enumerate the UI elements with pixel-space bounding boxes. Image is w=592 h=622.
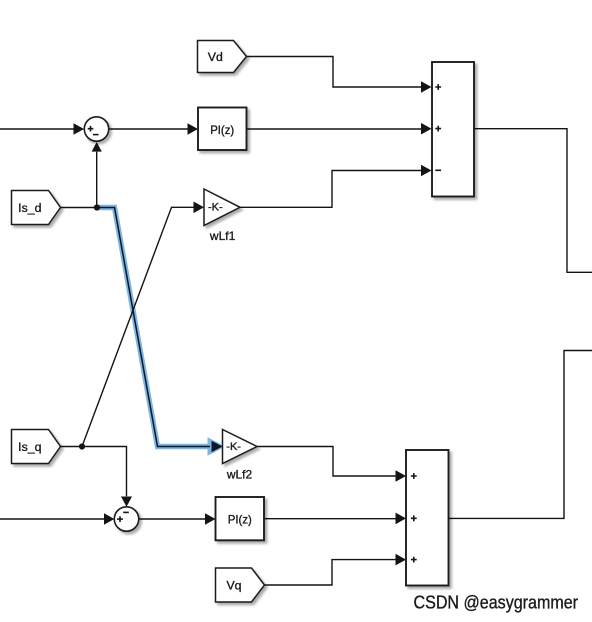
sum S2 sign +	[117, 516, 123, 522]
wire Vq to Sum2 input 3	[265, 554, 407, 585]
Sum2 block (+ + +)	[406, 450, 449, 586]
sum S1	[84, 117, 108, 141]
wire Is_d to node A	[61, 207, 98, 209]
wire Sum1 output to right edge	[475, 129, 592, 273]
svg-text:Vq: Vq	[226, 578, 241, 592]
Sum1 block (+ + -)	[432, 62, 474, 197]
svg-text:wLf1: wLf1	[209, 229, 236, 243]
tag Is_d	[12, 191, 61, 225]
wire gain wLf2 to Sum2 input 1	[257, 447, 406, 482]
block PI(z) U2	[216, 497, 265, 540]
Sum2 sign + (input 1)	[411, 473, 417, 479]
wire Is_q to node B	[61, 446, 83, 448]
Sum2 sign + (input 2)	[411, 515, 417, 521]
wire Sum2 output to right edge	[449, 351, 592, 519]
svg-text:-K-: -K-	[208, 202, 223, 214]
tag Is_q	[12, 430, 61, 464]
wire gain wLf1 to Sum1 input 3	[240, 165, 432, 208]
wire input q from left edge to sum S2	[0, 513, 114, 525]
svg-text:-K-: -K-	[226, 441, 241, 453]
sum S2 sign - (top)	[123, 511, 129, 513]
wire input d from left edge to sum S1	[0, 123, 84, 135]
Sum1 sign - (input 3)	[435, 169, 441, 171]
svg-text:Is_q: Is_q	[18, 440, 41, 454]
wire node B diagonal up to gain wLf1	[82, 202, 204, 447]
tag Vd	[198, 41, 247, 73]
gain wLf2	[223, 430, 258, 464]
block PI(z) U1	[198, 108, 247, 151]
sum S2	[114, 507, 138, 531]
wire (selected, blue) node A to gain wLf2	[97, 208, 226, 456]
wire Vd to Sum1 input 1	[247, 57, 432, 93]
svg-text:CSDN @easygrammer: CSDN @easygrammer	[414, 593, 579, 613]
Sum1 sign + (input 2)	[435, 126, 441, 132]
svg-text:Vd: Vd	[208, 50, 223, 64]
Sum1 sign + (input 1)	[435, 84, 441, 90]
node B junction dot	[79, 443, 85, 449]
wire node B to sum S2 top	[82, 447, 132, 507]
wire node A up into sum S1 bottom	[92, 142, 102, 208]
svg-text:Is_d: Is_d	[18, 201, 41, 215]
wire S1 to PI(z) U1	[110, 123, 199, 135]
svg-text:wLf2: wLf2	[226, 468, 253, 482]
wire PI(z) U2 to Sum2 input 2	[264, 513, 406, 525]
gain wLf1	[204, 189, 240, 226]
Sum2 sign + (input 3)	[411, 557, 417, 563]
node A junction dot	[94, 204, 100, 210]
wire S2 to PI(z) U2	[139, 513, 216, 525]
sum S1 sign +	[88, 126, 94, 132]
svg-text:PI(z): PI(z)	[210, 123, 234, 137]
sum S1 sign - (bottom)	[93, 134, 99, 136]
svg-text:PI(z): PI(z)	[228, 513, 252, 527]
wire PI(z) U1 to Sum1 input 2	[247, 123, 432, 135]
tag Vq	[216, 568, 265, 602]
